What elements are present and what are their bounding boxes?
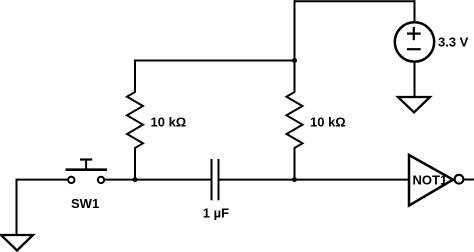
wire voltage source bottom lead <box>414 62 416 97</box>
ground bottom left <box>1 235 33 251</box>
inverter output bubble <box>455 175 464 184</box>
ground below voltage source <box>398 97 430 112</box>
resistor R1 10 kΩ <box>127 60 143 180</box>
voltage source V1 3.3 V <box>395 22 434 61</box>
wire NOT gate output <box>463 179 474 181</box>
node junction at R1 bottom <box>133 177 138 182</box>
wire voltage source top lead <box>414 0 416 22</box>
capacitor C1 1 µF <box>212 159 219 200</box>
wire vertical from top wire down to junction above R2 <box>294 0 296 60</box>
svg-text:NOT1: NOT1 <box>413 173 448 188</box>
svg-text:SW1: SW1 <box>71 196 99 211</box>
wire left segment from ground corner to switch <box>17 179 68 181</box>
svg-text:3.3 V: 3.3 V <box>438 35 469 50</box>
svg-text:10 kΩ: 10 kΩ <box>151 115 187 130</box>
wire top horizontal from node above R2 to voltage source <box>295 0 415 2</box>
svg-text:10 kΩ: 10 kΩ <box>310 115 346 130</box>
wire from switch to capacitor <box>105 179 212 181</box>
svg-text:1 µF: 1 µF <box>203 205 229 220</box>
wire left vertical down to ground <box>16 179 18 235</box>
node junction at R2 bottom <box>292 177 297 182</box>
wire mid horizontal from R1 top to junction above R2 <box>135 60 295 62</box>
inverter NOT1 triangle <box>409 155 453 206</box>
wire from capacitor to NOT gate input <box>219 179 410 181</box>
switch SW1 pushbutton <box>66 160 108 184</box>
node junction above R2 <box>292 58 297 63</box>
resistor R2 10 kΩ <box>287 61 303 180</box>
